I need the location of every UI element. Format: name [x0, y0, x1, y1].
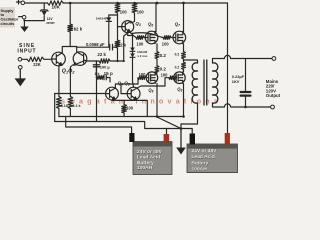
wire top supply rail: [25, 2, 228, 4]
wire diagonal rail A to battery junction: [157, 117, 181, 128]
wire Q3 emitter column: [124, 34, 127, 62]
battery B2 positive terminal: [225, 133, 230, 145]
capacitor 0.22uF 1KV: [245, 59, 247, 92]
resistor 100 (col Q3 base): [115, 3, 120, 13]
svg-text:100: 100: [137, 42, 145, 47]
svg-text:Output: Output: [266, 93, 281, 98]
wire battery1 positive drop: [166, 129, 168, 135]
svg-text:22K: 22K: [33, 62, 41, 67]
wire source ground rail A: [59, 116, 184, 118]
svg-text:INPUT: INPUT: [17, 49, 36, 55]
wire secondary bottom to output: [213, 103, 271, 107]
transistor Q3: [122, 21, 134, 33]
resistor 100 (Q6 gate): [136, 36, 144, 40]
svg-text:100AH: 100AH: [192, 167, 208, 173]
resistor 0.2 (Q7 lower): [183, 59, 185, 62]
label Supply to Oscillator circuits: [0, 7, 15, 28]
svg-text:100: 100: [126, 106, 134, 111]
resistor 22 k feedback: [87, 60, 99, 62]
supply - terminal: [19, 16, 23, 18]
resistor 62k: [69, 3, 71, 24]
sine input return terminal: [19, 66, 23, 70]
svg-text:x 2 nos: x 2 nos: [137, 54, 147, 58]
ground (battery center): [180, 129, 182, 149]
wire transformer primary top to bridge: [184, 60, 198, 63]
wire Q4 collector to Q8 gate: [115, 78, 138, 88]
svg-text:Battery: Battery: [137, 160, 154, 166]
svg-text:0.2: 0.2: [160, 66, 167, 71]
wire battery positive riser: [227, 3, 229, 133]
wire collector tie Q1 Q2: [62, 47, 76, 53]
wire Q8 source: [156, 84, 158, 117]
node junction dots on top rail: [69, 2, 185, 5]
resistor 1 k + capacitor 15 p: [96, 76, 104, 80]
resistor 100 (Q7 gate): [163, 36, 171, 40]
wire secondary top to output: [213, 55, 273, 63]
wire Q9 source: [183, 84, 185, 117]
mosfet Q7: [173, 31, 186, 44]
capacitor 0.0068uF: [77, 46, 110, 48]
wire B mid return: [55, 61, 181, 129]
transistor Q1: [52, 52, 66, 66]
svg-text:Q1Q2: Q1Q2: [62, 69, 75, 75]
mosfet Q8: [146, 72, 158, 84]
resistor 2k: [115, 40, 120, 48]
transistor Q5: [127, 87, 140, 100]
wire C left return to battery 1 negative: [55, 94, 132, 134]
svg-text:Battery: Battery: [192, 160, 209, 166]
battery B1 positive terminal: [164, 134, 170, 143]
diode 1N4148 (top): [108, 22, 110, 47]
sine input terminal: [18, 58, 22, 62]
resistor 5.1k (left): [57, 97, 62, 109]
wire Q5 collector to Q9 gate: [137, 78, 169, 88]
svg-text:zener: zener: [46, 21, 55, 25]
ground (supply minus): [23, 21, 25, 27]
battery B1 negative terminal: [129, 133, 134, 142]
mosfet Q6: [145, 31, 158, 44]
svg-text:15 p: 15 p: [104, 71, 113, 76]
wire Q6 drain: [155, 3, 157, 32]
svg-text:24V or 48V: 24V or 48V: [192, 148, 218, 154]
resistor 5.1k (right): [68, 97, 73, 109]
capacitor 100u: [95, 61, 97, 65]
resistor 22K input: [22, 58, 27, 60]
wire Q1 emitter: [58, 66, 60, 97]
svg-text:100: 100: [162, 42, 170, 47]
svg-text:22 k: 22 k: [97, 52, 106, 57]
svg-text:circuits: circuits: [1, 21, 15, 26]
battery B1 24V or 48V: [133, 142, 172, 175]
transistor Q2: [73, 52, 87, 66]
svg-text:Lead Acid: Lead Acid: [137, 154, 160, 160]
svg-text:5.1 k: 5.1 k: [72, 104, 81, 108]
zener diode 12V: [43, 3, 45, 10]
resistor 100 (col Q3 collector): [132, 3, 137, 13]
svg-text:0.2: 0.2: [160, 53, 167, 58]
svg-text:100: 100: [120, 10, 128, 15]
resistor 100 (Q8 gate): [138, 76, 146, 80]
wire Q2 emitter: [70, 65, 72, 97]
svg-text:10K: 10K: [52, 5, 61, 10]
resistor 100 (Q9 gate): [169, 76, 177, 80]
transformer core: [204, 60, 207, 105]
wire Q3 emitter to gates: [130, 32, 136, 38]
svg-text:62 k: 62 k: [74, 27, 83, 32]
wire junction to transformer primary bottom: [181, 104, 198, 129]
svg-text:100: 100: [137, 10, 145, 15]
svg-text:100 µ: 100 µ: [100, 64, 111, 69]
wire Q7 drain: [183, 3, 185, 32]
wire Q3 base from 100 col: [118, 26, 122, 28]
output terminal (top): [272, 57, 276, 61]
diodes 1N4148 x 2 nos: [132, 36, 134, 48]
wire minus to zener: [24, 19, 44, 21]
svg-text:100: 100: [139, 72, 147, 77]
transistor Q4: [106, 87, 119, 100]
battery B2 24V or 48V: [187, 144, 238, 173]
resistor 100 (below Q4 Q5): [123, 100, 125, 104]
wire Q5 base stub: [121, 85, 127, 94]
svg-text:1KV: 1KV: [232, 79, 240, 84]
resistor 10K (top rail): [48, 1, 64, 5]
ground (sine input): [19, 69, 21, 79]
svg-text:0.0068 µF: 0.0068 µF: [86, 42, 105, 47]
svg-text:0.2: 0.2: [175, 65, 180, 69]
resistor 0.2 (Q7 source upper): [183, 44, 185, 52]
mosfet Q9: [174, 72, 186, 84]
wire Q4 Q5 emitter rail: [112, 100, 147, 117]
wire battery2 negative: [181, 129, 192, 134]
resistor 0.2 (Q6 lower): [156, 59, 158, 66]
wire base line Q4 / emitter tie: [55, 93, 106, 95]
battery B2 negative terminal: [190, 134, 195, 145]
output terminal (bottom): [271, 105, 275, 109]
svg-text:24V or 48V: 24V or 48V: [137, 149, 163, 155]
supply + terminal: [17, 0, 21, 4]
svg-text:1N4148: 1N4148: [96, 17, 107, 21]
transformer T1 secondary winding: [213, 63, 218, 103]
svg-text:0.2: 0.2: [175, 52, 180, 56]
transformer T1 primary winding: [192, 63, 197, 103]
svg-text:Lead Acid: Lead Acid: [192, 154, 215, 160]
resistor 0.2 (Q6 source upper): [156, 44, 158, 52]
svg-text:100AH: 100AH: [137, 165, 153, 171]
svg-text:100: 100: [161, 72, 169, 77]
